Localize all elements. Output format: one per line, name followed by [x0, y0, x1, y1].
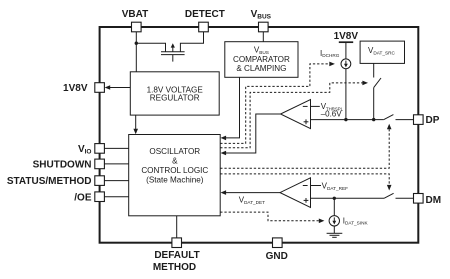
- pin square VIO: [95, 144, 105, 154]
- wire switch to DM pin: [396, 197, 414, 199]
- wire U4 output to oscillator: [223, 192, 280, 194]
- pin square 1V8V: [95, 83, 105, 93]
- op-amp U3 minus input line: [311, 105, 320, 107]
- wire switch S1 to DP line: [373, 88, 375, 120]
- oscillator control logic box: [129, 135, 221, 216]
- svg-text:STATUS/METHOD: STATUS/METHOD: [7, 176, 92, 187]
- svg-text:DM: DM: [426, 195, 442, 206]
- transistor M1 channel bar: [161, 51, 185, 53]
- op-amp U4 minus input line: [311, 185, 322, 187]
- svg-text:DP: DP: [426, 115, 440, 126]
- wire DM line: [311, 197, 385, 199]
- svg-text:–0.6V: –0.6V: [321, 110, 343, 119]
- transistor M1 bulk arrow: [172, 47, 174, 52]
- node DP/VDATSRC junction: [372, 118, 375, 121]
- wire VDAT_SRC to switch: [373, 63, 375, 77]
- wire DM junction to current sink: [333, 198, 335, 215]
- wire VBUS down to comparator: [262, 32, 264, 42]
- svg-text:COMPARATOR: COMPARATOR: [233, 55, 290, 64]
- wire SHUTDOWN to oscillator: [104, 163, 128, 165]
- pin square DP: [414, 115, 424, 125]
- switch S3 DM blade: [384, 193, 394, 198]
- svg-text:(State Machine): (State Machine): [146, 175, 204, 184]
- pin square DM: [414, 194, 424, 204]
- ground symbol: [327, 232, 343, 234]
- svg-text:CONTROL LOGIC: CONTROL LOGIC: [141, 166, 208, 175]
- node DM/IDATSINK junction: [333, 197, 336, 200]
- wire FET drain to DETECT: [180, 32, 203, 52]
- current source I_DCHRG circle: [341, 59, 351, 69]
- svg-text:1V8V: 1V8V: [334, 31, 359, 42]
- svg-text:SHUTDOWN: SHUTDOWN: [33, 160, 92, 171]
- switch S2 DP blade: [384, 115, 394, 120]
- svg-text:/OE: /OE: [74, 192, 92, 203]
- switch S1 blade: [374, 78, 381, 88]
- op-amp U3 minus symbol: [303, 105, 308, 107]
- pin square DETECT: [199, 22, 209, 32]
- svg-text:DETECT: DETECT: [185, 9, 225, 20]
- wire U3 output to oscillator: [223, 114, 280, 153]
- pin square STATUS/METHOD: [95, 176, 105, 186]
- op-amp U3 plus symbol: [304, 121, 309, 123]
- svg-text:DEFAULT: DEFAULT: [154, 250, 199, 261]
- comparator block box: [225, 42, 298, 78]
- dashed control net D2 to VDATSRC switch: [220, 83, 364, 148]
- svg-text:GND: GND: [266, 251, 288, 262]
- wire comparator output to oscillator: [223, 77, 239, 138]
- node DP/IDCHRG junction: [344, 118, 347, 121]
- wire VIO to oscillator: [104, 147, 128, 149]
- svg-text:REGULATOR: REGULATOR: [150, 94, 200, 103]
- dashed control net D4 to DM switch: [220, 174, 389, 187]
- svg-text:1V8V: 1V8V: [63, 83, 88, 94]
- transistor M1 gate lead: [172, 55, 174, 62]
- regulator U2 box: [130, 72, 219, 115]
- svg-text:& CLAMPING: & CLAMPING: [236, 64, 286, 73]
- wire 1V8V output arrow: [106, 87, 130, 89]
- svg-text:OSCILLATOR: OSCILLATOR: [149, 147, 200, 156]
- pin square DEFAULT METHOD: [172, 238, 182, 248]
- wire oscillator to DEFAULT METHOD pin: [176, 216, 178, 238]
- dashed control net D3 to DP switch: [220, 127, 389, 168]
- transistor M1 gate bar: [161, 54, 185, 56]
- pin square VBAT: [132, 22, 142, 32]
- wire rail to current source: [345, 42, 347, 59]
- pin square /OE: [95, 192, 105, 202]
- wire current source to DP line: [345, 69, 347, 120]
- wire regulator to oscillator arrow: [135, 115, 137, 132]
- wire /OE to oscillator: [104, 196, 128, 198]
- current source I_DAT_SINK circle: [329, 216, 339, 226]
- wire FET source from junction: [136, 43, 165, 51]
- VDAT_SRC box: [360, 41, 404, 63]
- svg-text:VBAT: VBAT: [122, 9, 148, 20]
- 1V8V rail bar: [339, 41, 353, 43]
- pin square VBUS: [259, 22, 269, 32]
- pin square GND: [273, 238, 283, 248]
- outer chip border: [100, 27, 419, 243]
- wire VBAT down to regulator: [135, 32, 137, 72]
- op-amp U4 plus symbol: [304, 199, 309, 201]
- dashed control net D1 to IDCHRG: [220, 64, 331, 143]
- svg-text:&: &: [172, 157, 178, 166]
- node junction VBAT/FET: [135, 42, 138, 45]
- svg-text:METHOD: METHOD: [153, 262, 196, 273]
- pin square SHUTDOWN: [95, 159, 105, 169]
- wire sink to ground: [333, 226, 335, 233]
- wire DP line: [311, 119, 384, 121]
- wire switch to DP pin: [396, 119, 414, 121]
- dashed control net D5 to IDATSINK: [220, 212, 321, 221]
- op-amp U3 triangle: [281, 100, 311, 129]
- op-amp U4 minus symbol: [303, 185, 308, 187]
- op-amp U4 triangle: [280, 178, 311, 208]
- wire STATUS/METHOD to oscillator: [104, 180, 128, 182]
